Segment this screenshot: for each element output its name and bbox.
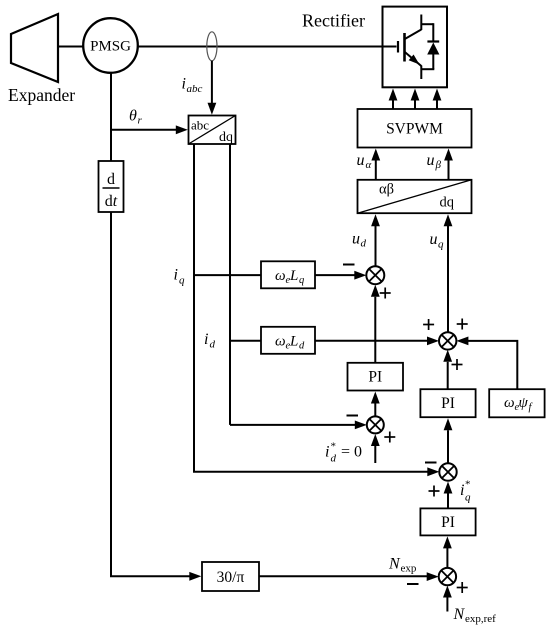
wire u_alpha into SVPWM: [375, 159, 377, 180]
wire u_q into transform: [447, 225, 449, 332]
svg-text:dq: dq: [440, 195, 455, 211]
emitter diagonal with arrow: [405, 52, 422, 66]
wire id row: [230, 340, 261, 342]
wire u_d into transform: [375, 225, 377, 266]
svg-text:dt: dt: [105, 193, 118, 210]
svg-text:exp,ref: exp,ref: [465, 613, 496, 625]
block omega_e L_d: [261, 327, 315, 354]
svg-text:PI: PI: [441, 514, 455, 531]
svg-text:ψ: ψ: [519, 395, 529, 411]
wire d-loop to d PI: [374, 404, 376, 417]
block omega_e L_q: [261, 261, 315, 288]
wire id vertical: [229, 144, 231, 425]
summing junction ud: [366, 266, 384, 284]
svg-text:SVPWM: SVPWM: [386, 121, 443, 138]
svg-text:d: d: [299, 341, 305, 352]
current sensor ellipse: [207, 32, 217, 61]
IGBT Q1: [398, 15, 422, 80]
transform block alpha-beta / dq: [358, 180, 472, 213]
svg-text:θ: θ: [129, 108, 137, 125]
svg-text:PMSG: PMSG: [90, 39, 131, 55]
minus at iq feedback: [425, 462, 437, 464]
body bar: [403, 33, 406, 62]
transform block abc/dq: [189, 116, 236, 146]
svg-text:β: β: [435, 159, 442, 171]
freewheeling diode D1: [421, 23, 439, 69]
wire d/dt down to 30/pi row: [111, 212, 191, 576]
block omega_e psi_f: [489, 389, 544, 417]
label id*=0: [325, 441, 362, 465]
gate bar: [397, 41, 399, 53]
svg-text:N: N: [388, 556, 401, 573]
svg-text:ω: ω: [275, 334, 286, 350]
svg-text:α: α: [366, 159, 372, 171]
label N_exp: [388, 556, 417, 575]
svg-text:q: q: [179, 275, 185, 287]
svg-text:αβ: αβ: [379, 182, 394, 198]
svg-text:r: r: [138, 115, 143, 127]
label u_q: [430, 231, 445, 251]
svg-text:d: d: [331, 453, 337, 465]
label u_d: [352, 231, 367, 250]
wire id* input: [374, 446, 376, 463]
label theta_r: [129, 108, 143, 127]
expander symbol: [11, 14, 58, 82]
plus at N_exp,ref: [457, 582, 468, 593]
label i_q: [174, 267, 186, 287]
wire iq row: [194, 274, 261, 276]
plus right of uq summing: [457, 319, 468, 330]
svg-text:i: i: [325, 444, 329, 461]
svg-text:u: u: [430, 231, 438, 248]
PI speed block: [420, 508, 475, 535]
svg-text:Rectifier: Rectifier: [302, 11, 365, 31]
wire PMSG down to d/dt: [110, 73, 112, 161]
minus at ud summing: [343, 264, 355, 266]
plus left of uq summing: [423, 319, 434, 330]
label N_exp,ref: [453, 606, 497, 625]
wire N_exp,ref input: [446, 598, 448, 612]
label i_d: [204, 331, 216, 351]
wire 30/pi to speed summing: [259, 575, 428, 577]
wire speed summing to PI: [446, 548, 448, 568]
plus at iq* input: [429, 486, 440, 497]
plus at id* input: [384, 432, 395, 443]
wire PI to iq* summing: [447, 494, 449, 509]
svg-text:L: L: [289, 334, 298, 350]
svg-text:L: L: [289, 268, 298, 284]
svg-text:ω: ω: [504, 395, 515, 411]
PI d-axis block: [348, 363, 404, 391]
svg-text:d: d: [107, 171, 115, 188]
svg-text:Expander: Expander: [8, 85, 75, 105]
wire omega_e L_q to ud summing: [315, 274, 356, 276]
emitter lead: [420, 66, 422, 80]
block 30/pi: [202, 562, 259, 591]
wire id to d-loop summing: [230, 424, 356, 426]
svg-text:PI: PI: [368, 369, 382, 386]
svg-text:q: q: [438, 239, 444, 251]
wire omega_e L_d to uq summing: [315, 340, 428, 342]
svg-text:abc: abc: [187, 83, 203, 95]
summing junction uq: [439, 332, 456, 349]
wire iq feedback: [194, 144, 428, 472]
svg-text:= 0: = 0: [341, 444, 362, 461]
wire psi_f to uq summing: [467, 341, 517, 389]
PI q-axis block: [420, 389, 475, 417]
summing junction d-loop: [367, 416, 384, 433]
wire u_beta into SVPWM: [448, 159, 450, 180]
SVPWM block: [358, 109, 472, 148]
svg-text:q: q: [299, 275, 304, 286]
svg-text:*: *: [465, 479, 471, 491]
svg-text:i: i: [182, 76, 186, 93]
svg-text:u: u: [352, 231, 360, 248]
wire expander to PMSG: [58, 46, 84, 48]
wire d PI to ud summing: [374, 297, 376, 363]
svg-text:i: i: [460, 482, 464, 499]
svg-text:d: d: [361, 238, 367, 250]
label u_beta: [427, 152, 442, 171]
wire theta_r into abc/dq: [111, 129, 177, 131]
label iq*: [460, 479, 471, 504]
wire q PI to uq summing: [447, 362, 449, 389]
rectifier box: [383, 7, 448, 88]
gating arrows SVPWM to rectifier: [389, 89, 442, 110]
plus below uq summing: [452, 359, 463, 370]
wire PMSG to rectifier (gate line): [138, 46, 397, 48]
svg-text:i: i: [174, 267, 178, 284]
label i_abc: [182, 76, 203, 96]
plus below ud summing: [380, 288, 391, 299]
svg-text:30/π: 30/π: [217, 569, 245, 586]
svg-text:dq: dq: [219, 130, 233, 145]
minus at speed summing: [407, 583, 419, 585]
wire i_abc down to abc/dq: [211, 61, 213, 104]
svg-text:N: N: [453, 606, 466, 623]
summing junction speed: [439, 568, 456, 585]
generator PMSG: [83, 18, 138, 73]
svg-text:ω: ω: [275, 268, 286, 284]
svg-text:i: i: [204, 331, 208, 348]
collector lead: [420, 15, 422, 31]
minus at d-loop summing: [347, 415, 359, 417]
svg-text:u: u: [357, 152, 365, 169]
svg-text:*: *: [331, 441, 337, 453]
svg-text:q: q: [465, 492, 471, 504]
svg-text:exp: exp: [401, 563, 417, 575]
svg-text:u: u: [427, 152, 435, 169]
svg-text:d: d: [210, 339, 216, 351]
wire iq* to current PI: [447, 430, 449, 463]
collector diagonal: [405, 30, 422, 40]
label u_alpha: [357, 152, 372, 171]
summing junction iq*: [439, 463, 456, 480]
svg-text:PI: PI: [441, 395, 455, 412]
block d/dt: [99, 161, 124, 212]
svg-text:abc: abc: [191, 118, 209, 133]
